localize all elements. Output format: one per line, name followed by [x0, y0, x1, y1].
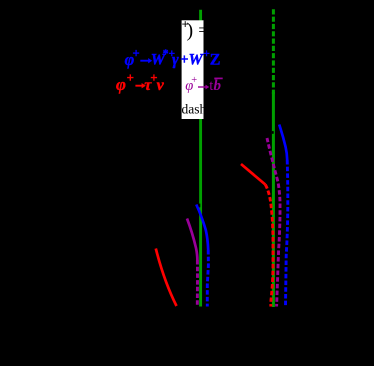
arrow	[135, 85, 142, 87]
left blue curve solid part	[196, 205, 208, 251]
legend magenta entry: phi+ -> t bbar	[185, 75, 222, 94]
svg-text:+: +	[191, 75, 197, 86]
legend box	[182, 20, 204, 119]
svg-text:+: +	[127, 71, 134, 85]
svg-text:dash: dash	[182, 102, 207, 117]
svg-text:+: +	[180, 52, 188, 68]
svg-text:+: +	[133, 47, 140, 61]
arrow	[198, 86, 206, 88]
legend red entry: phi+ -> tau+ nu	[116, 71, 165, 94]
left purple curve solid part	[187, 219, 197, 261]
exclusion line left (solid green), top dash shows above legend box	[199, 10, 202, 307]
right red curve solid part	[241, 164, 265, 185]
notch on right green line	[272, 131, 274, 134]
left red curve (solid)	[156, 249, 177, 307]
right blue curve solid part	[279, 125, 287, 161]
svg-text:ν: ν	[157, 77, 165, 94]
left blue curve dashed part	[207, 250, 208, 307]
svg-text:b: b	[214, 78, 222, 94]
bbar overline	[214, 77, 222, 79]
exclusion line right (dashed green top)	[272, 9, 275, 94]
right blue curve dashed part	[286, 160, 288, 307]
exclusion line right (solid green bottom)	[272, 92, 275, 307]
notch on left green line at blue crossing	[199, 204, 201, 208]
right red curve dashed part	[265, 185, 273, 307]
svg-text:): )	[187, 20, 194, 42]
legend blue entry: phi+ -> W*+ gamma + W+ Z	[125, 47, 221, 70]
right purple curve (dashed)	[267, 138, 280, 307]
svg-text:γ: γ	[172, 52, 179, 69]
left purple curve dashed part	[196, 260, 199, 307]
svg-text:=: =	[198, 20, 208, 40]
svg-text:φ: φ	[116, 75, 126, 94]
svg-text:W: W	[189, 52, 205, 69]
svg-text:Z: Z	[210, 52, 221, 69]
arrow	[140, 60, 148, 62]
